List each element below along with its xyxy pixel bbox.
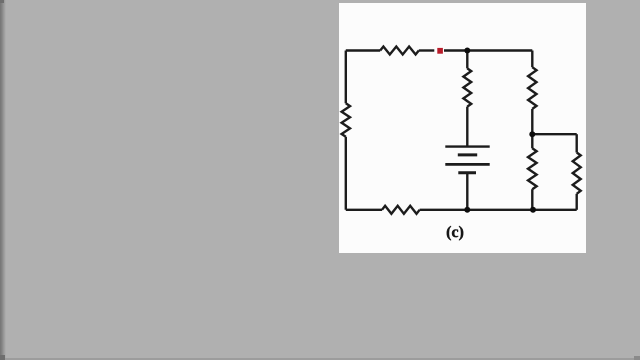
battery B1 plate long top: [445, 145, 489, 147]
wire bottom rail right of resistor: [420, 209, 577, 211]
left dark edge strip: [0, 0, 6, 360]
wire far-right rail lower: [576, 194, 578, 210]
red probe marker on top wire: [437, 48, 443, 54]
label (c): [447, 226, 463, 241]
wire right rail to mid junction: [531, 109, 533, 148]
wire top rail between resistor and probe: [419, 49, 435, 51]
wire right rail lower to bottom: [531, 189, 533, 210]
wire left rail upper segment: [345, 51, 347, 104]
white schematic panel: [339, 3, 586, 253]
wire left rail lower segment: [345, 137, 347, 210]
bottom-right dark corner: [634, 356, 640, 360]
wire far-right rail upper: [576, 134, 578, 152]
resistor R4 (middle vertical): [463, 68, 471, 106]
node B junction dot (bottom middle): [464, 207, 470, 213]
resistor R7 (far right vertical): [573, 153, 581, 194]
wire top rail left of resistor: [346, 49, 380, 51]
battery B1 plate short bottom: [458, 171, 476, 174]
node A junction dot (top middle): [464, 48, 470, 54]
resistor R2 (left vertical): [342, 103, 350, 137]
wire sub-loop top: [532, 133, 576, 135]
battery B1 plate long lower: [445, 163, 489, 166]
resistor R6 (right vertical lower): [528, 148, 537, 189]
wire top rail from probe to top-right corner: [444, 49, 532, 51]
wire middle branch to battery: [466, 107, 468, 147]
resistor R5 (right vertical upper): [528, 67, 536, 109]
node D junction dot (bottom right): [530, 207, 536, 213]
resistor R3 (bottom horizontal): [382, 206, 420, 214]
wire middle branch top: [466, 51, 468, 69]
battery B1 plate short upper: [458, 153, 477, 156]
bottom dark line: [0, 358, 640, 360]
resistor R1 (top horizontal): [380, 47, 419, 55]
wire battery to bottom rail: [466, 173, 468, 210]
node C junction dot (right mid): [529, 131, 535, 137]
top-left dark corner: [0, 0, 4, 3]
wire right rail upper segment: [531, 51, 533, 68]
bottom-left dark corner: [0, 355, 5, 360]
wire bottom rail: [346, 209, 382, 211]
